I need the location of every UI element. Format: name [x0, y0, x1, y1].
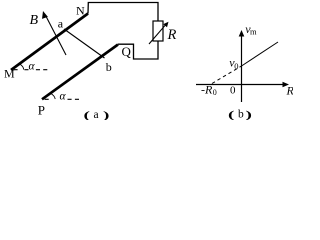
svg-text:-R: -R	[201, 83, 213, 97]
svg-text:α: α	[60, 90, 67, 102]
svg-text:P: P	[38, 103, 45, 118]
svg-text:(: (	[228, 109, 234, 120]
dashed horizontal at M	[14, 69, 48, 71]
svg-text:m: m	[250, 27, 257, 37]
svg-text:0: 0	[234, 61, 238, 71]
graph v-axis	[239, 30, 245, 102]
wire box bottom to Q	[118, 41, 158, 59]
angle arc at M	[20, 64, 24, 70]
svg-text:0: 0	[213, 88, 217, 97]
svg-text:N: N	[76, 4, 85, 18]
rheostat arrow	[149, 22, 169, 44]
svg-text:): )	[246, 109, 252, 120]
svg-text:B: B	[30, 13, 39, 28]
svg-text:a: a	[94, 109, 99, 120]
svg-text:R: R	[286, 84, 294, 98]
svg-text:): )	[103, 109, 109, 120]
svg-text:(: (	[84, 109, 90, 120]
graph x-axis R	[196, 82, 289, 88]
angle arc at P	[50, 93, 56, 99]
svg-text:b: b	[106, 60, 112, 74]
svg-text:0: 0	[230, 85, 236, 97]
svg-text:α: α	[29, 60, 36, 72]
rod ab	[64, 29, 105, 58]
svg-text:R: R	[167, 27, 177, 43]
rheostat R box	[153, 21, 163, 41]
rail PQ (inclined conducting rail)	[42, 45, 118, 100]
graph solid line	[242, 42, 279, 66]
svg-text:b: b	[238, 109, 244, 121]
dashed horizontal at P	[45, 98, 79, 100]
svg-text:a: a	[58, 17, 64, 31]
wire N to top	[88, 3, 158, 22]
B field arrow	[42, 11, 66, 55]
graph dashed line to -R0	[212, 66, 242, 84]
svg-text:Q: Q	[122, 44, 132, 59]
rail MN (inclined conducting rail)	[11, 14, 88, 71]
svg-text:M: M	[4, 67, 15, 81]
